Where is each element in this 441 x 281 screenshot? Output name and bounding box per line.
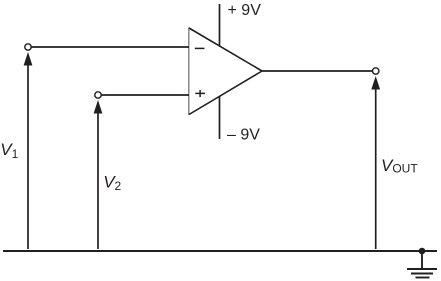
svg-text:VOUT: VOUT: [381, 156, 418, 176]
wire V1 source arrow: [24, 52, 33, 249]
wire op-amp output: [262, 70, 373, 72]
wire V1 input to inverting input: [31, 46, 189, 48]
wire V2 source arrow: [94, 100, 103, 249]
svg-text:– 9V: – 9V: [227, 127, 260, 144]
op-amp U1: [189, 28, 262, 116]
svg-text:V1: V1: [0, 140, 18, 161]
svg-text:V2: V2: [103, 172, 121, 193]
node terminal VOUT: [373, 68, 379, 74]
wire common bottom rail: [3, 250, 437, 252]
junction dot at ground node: [419, 248, 426, 255]
wire V2 input to non-inverting input: [101, 94, 189, 96]
svg-text:+ 9V: + 9V: [228, 2, 262, 19]
node terminal V1: [25, 44, 31, 50]
wire +9V supply: [219, 4, 221, 46]
op-amp inverting input pin (-): [195, 47, 205, 49]
wire VOUT arrow: [371, 76, 380, 249]
ground: [407, 251, 437, 278]
wire -9V supply: [219, 96, 221, 139]
node terminal V2: [95, 92, 101, 98]
op-amp non-inverting input pin (+): [195, 90, 205, 97]
